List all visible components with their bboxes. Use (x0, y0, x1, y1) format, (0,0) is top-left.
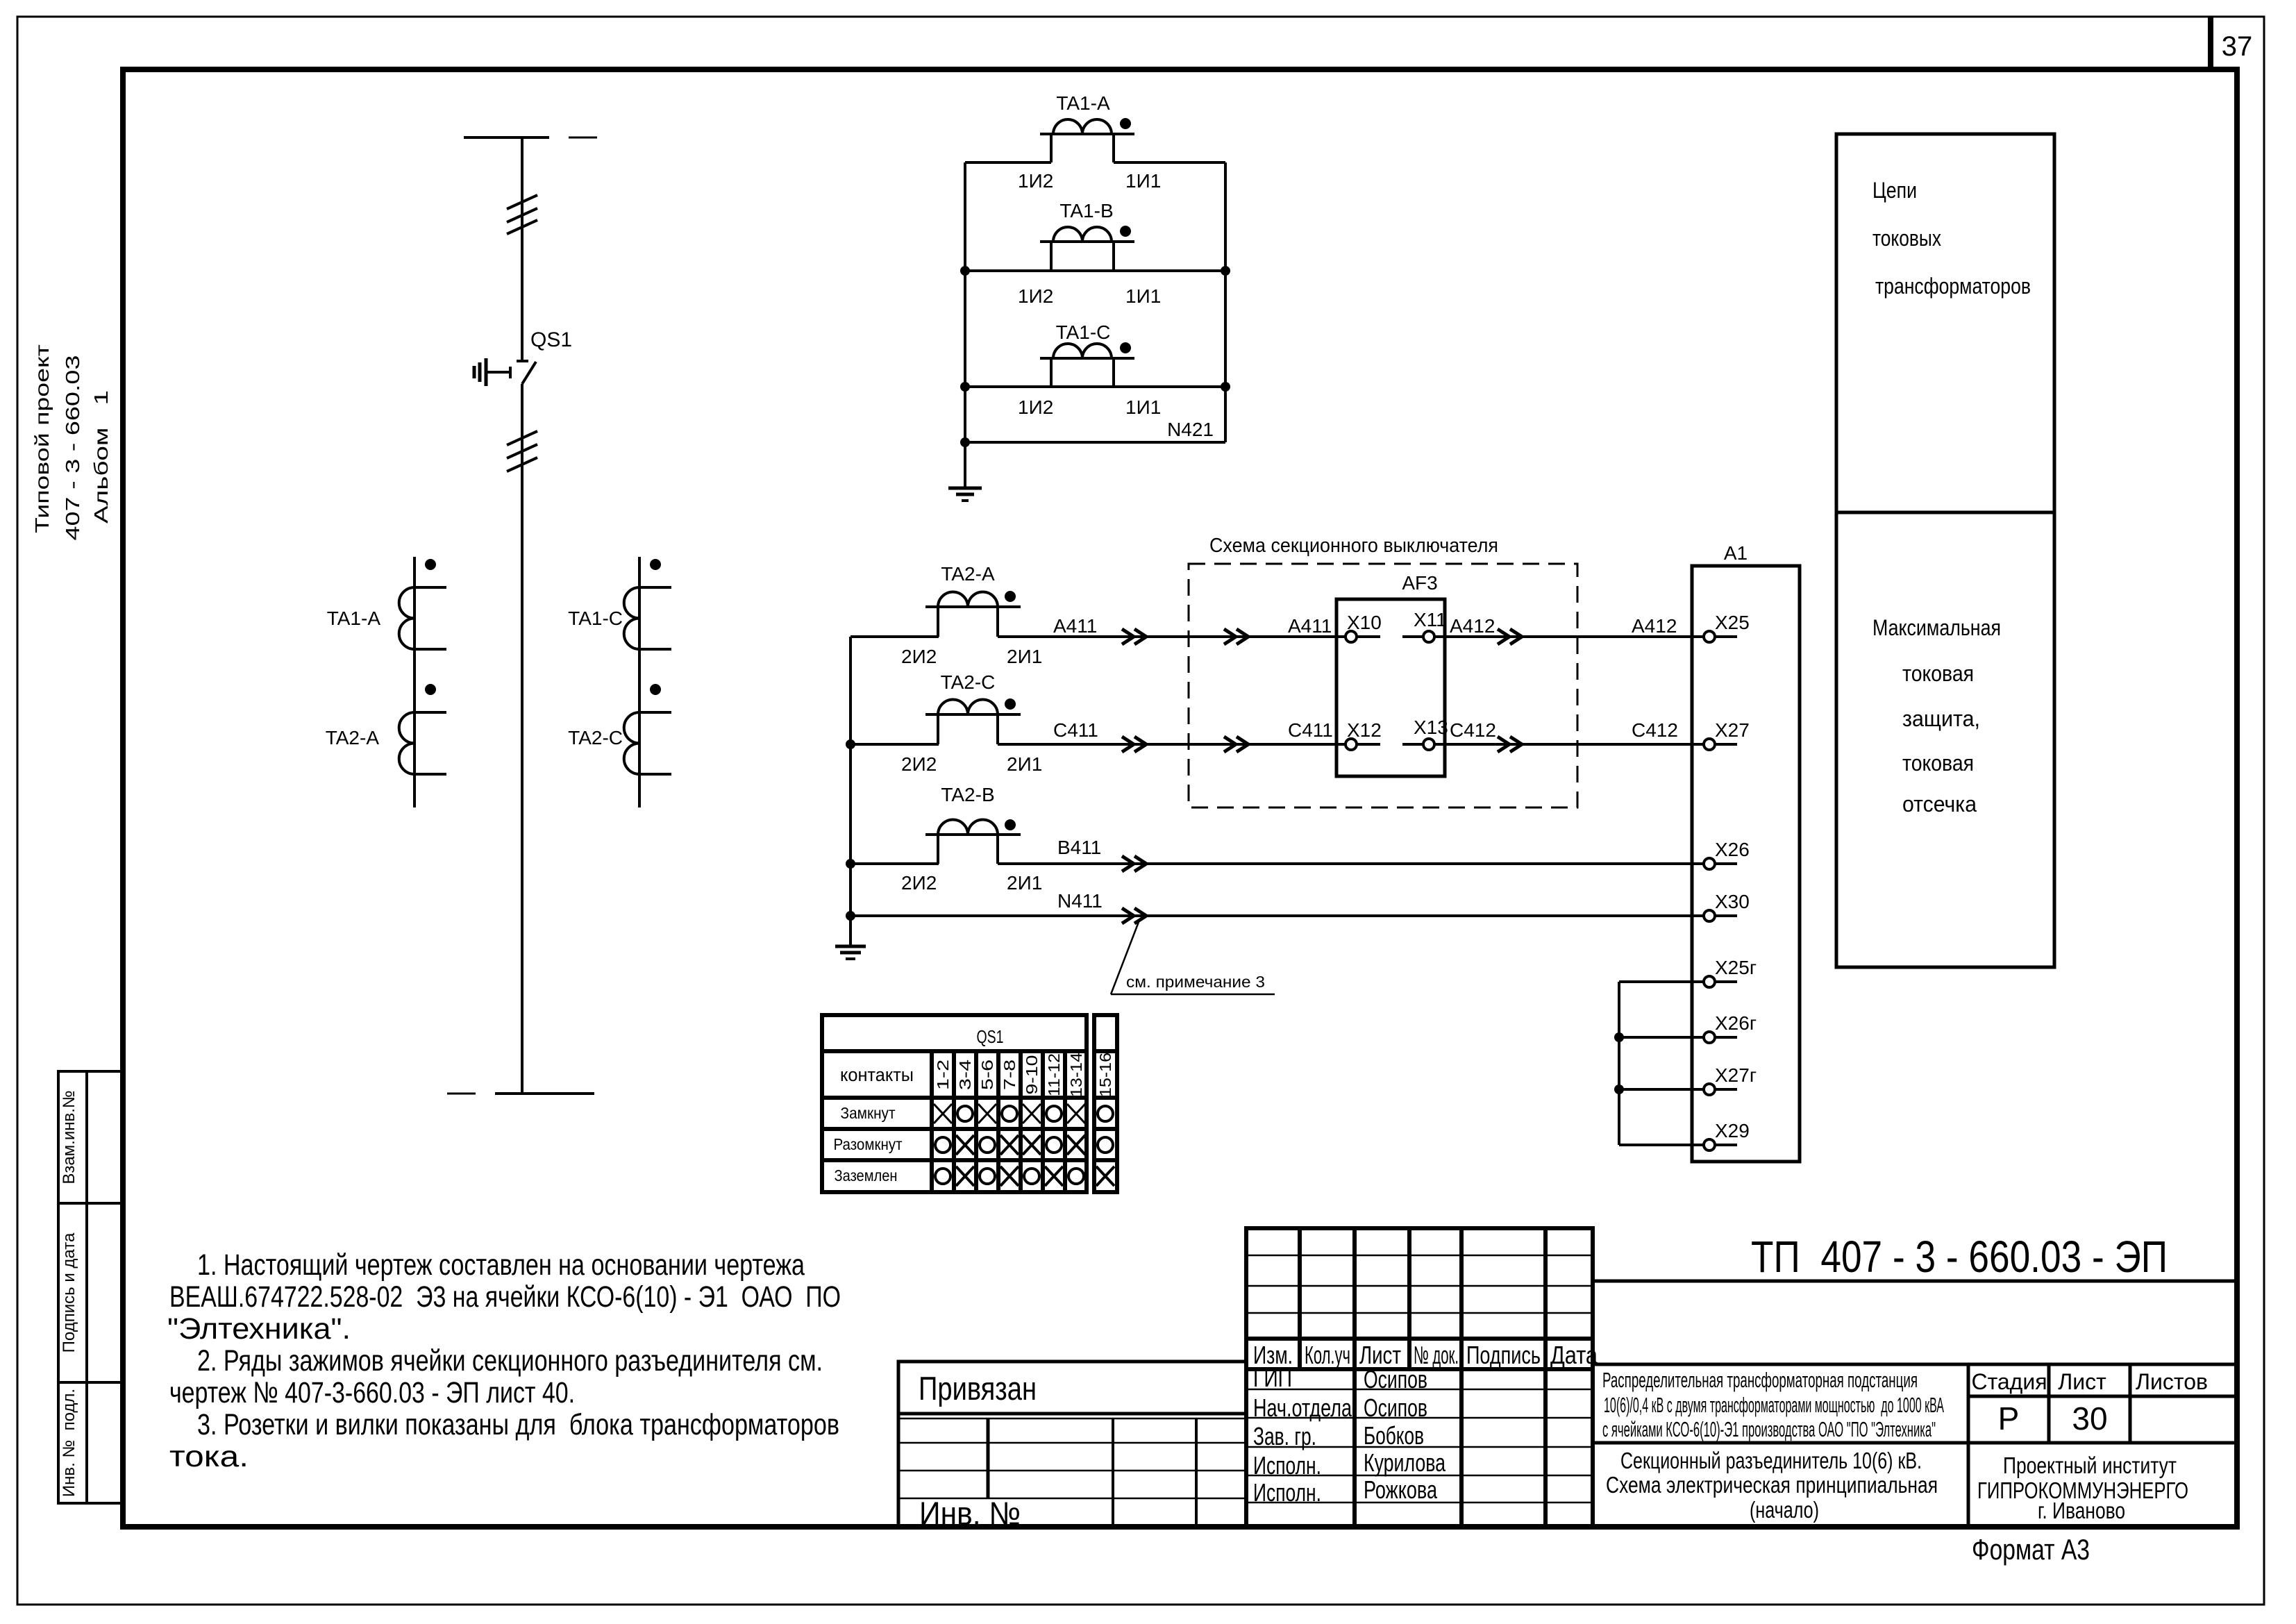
cable marks upper (507, 195, 537, 234)
svg-text:1И1: 1И1 (1125, 170, 1161, 192)
terminal X25 (1704, 612, 1750, 642)
rotated margin text Типовой проект (31, 344, 53, 533)
svg-text:Кол.уч: Кол.уч (1305, 1341, 1350, 1369)
svg-text:X26г: X26г (1715, 1012, 1757, 1034)
svg-text:см. примечание 3: см. примечание 3 (1126, 973, 1265, 991)
svg-text:Альбом 1: Альбом 1 (90, 390, 112, 524)
svg-text:Подпись: Подпись (1466, 1341, 1541, 1369)
rotated margin text 407-3-660.03 (62, 355, 83, 541)
sidebar cell Взам.инв.№ (58, 1071, 122, 1203)
terminal X29 (1704, 1120, 1750, 1150)
wire A412 (1434, 615, 1704, 644)
svg-text:токовая: токовая (1902, 751, 1974, 776)
svg-text:N411: N411 (1057, 890, 1103, 912)
svg-text:Инв. №: Инв. № (919, 1495, 1021, 1532)
svg-text:A411: A411 (1288, 615, 1332, 637)
current transformer TA1-B (top) (1040, 200, 1134, 271)
svg-text:Осипов: Осипов (1364, 1365, 1427, 1393)
svg-text:Листов: Листов (2136, 1369, 2208, 1394)
svg-text:токовых: токовых (1872, 226, 1941, 251)
svg-text:TA1-A: TA1-A (327, 608, 381, 629)
terminal X27г (1704, 1064, 1757, 1095)
wire C412 (1434, 719, 1704, 752)
svg-text:"Элтехника".: "Элтехника". (167, 1312, 351, 1346)
current transformer TA2-C (right column) (568, 684, 671, 774)
breaker block AF3 (1336, 572, 1445, 776)
svg-text:11-12: 11-12 (1045, 1053, 1063, 1096)
svg-text:5-6: 5-6 (978, 1060, 996, 1090)
svg-text:37: 37 (2222, 31, 2253, 62)
svg-text:9-10: 9-10 (1023, 1055, 1041, 1095)
QS1 table marks (934, 1104, 1114, 1186)
terminal X27 (1704, 719, 1750, 750)
wire row 4 (960, 437, 1225, 447)
svg-text:Схема электрическая принципиал: Схема электрическая принципиальная (1606, 1472, 1938, 1498)
svg-text:3. Розетки и вилки показаны дл: 3. Розетки и вилки показаны для блока тр… (197, 1408, 839, 1441)
current transformer TA1-A (left column) (327, 559, 446, 649)
ground TA2 bus (835, 946, 866, 959)
info box Максимальная токовая защита (1836, 512, 2054, 967)
svg-text:1. Настоящий чертеж составлен: 1. Настоящий чертеж составлен на основан… (197, 1248, 805, 1282)
svg-text:(начало): (начало) (1750, 1497, 1819, 1523)
svg-text:TA2-A: TA2-A (941, 563, 995, 585)
svg-text:Рожкова: Рожкова (1364, 1475, 1438, 1504)
svg-text:13-14: 13-14 (1067, 1053, 1085, 1097)
svg-text:TA2-C: TA2-C (568, 727, 623, 748)
svg-text:контакты: контакты (840, 1064, 914, 1085)
contact table QS1 (822, 1015, 1117, 1192)
wire N411 (846, 890, 1704, 923)
svg-text:TA2-B: TA2-B (941, 784, 994, 805)
current transformer TA1-C (right column) (568, 559, 671, 649)
svg-text:X26: X26 (1715, 839, 1750, 860)
svg-text:1И1: 1И1 (1125, 285, 1161, 307)
svg-text:ТП 407 - 3 - 660.03 - ЭП: ТП 407 - 3 - 660.03 - ЭП (1751, 1232, 2168, 1282)
svg-text:2И2: 2И2 (901, 872, 937, 894)
svg-text:Заземлен: Заземлен (835, 1166, 898, 1184)
svg-text:B411: B411 (1057, 837, 1101, 858)
svg-text:X25г: X25г (1715, 957, 1757, 978)
current transformer TA2-C (901, 671, 1042, 775)
svg-text:чертеж № 407-3-660.03 - ЭП лис: чертеж № 407-3-660.03 - ЭП лист 40. (169, 1376, 575, 1409)
svg-text:Исполн.: Исполн. (1253, 1478, 1321, 1507)
svg-text:TA1-C: TA1-C (568, 608, 623, 629)
terminal X26г (1704, 1012, 1757, 1043)
svg-text:Схема секционного выключателя: Схема секционного выключателя (1209, 535, 1498, 557)
svg-text:C412: C412 (1450, 719, 1496, 741)
svg-text:QS1: QS1 (977, 1026, 1004, 1047)
svg-text:2И1: 2И1 (1007, 646, 1042, 667)
svg-text:защита,: защита, (1902, 706, 1980, 731)
svg-text:TA1-A: TA1-A (1056, 92, 1110, 114)
terminal X11 (1402, 609, 1447, 642)
svg-text:TA2-C: TA2-C (941, 671, 996, 693)
svg-text:TA2-A: TA2-A (326, 727, 380, 748)
svg-text:Осипов: Осипов (1364, 1393, 1427, 1422)
wire right CT column (638, 557, 641, 807)
busbar bottom (447, 1092, 594, 1095)
svg-text:X29: X29 (1715, 1120, 1750, 1141)
svg-text:Курилова: Курилова (1364, 1448, 1446, 1477)
svg-text:QS1: QS1 (530, 328, 572, 351)
current transformer TA1-C (top) (1040, 321, 1134, 387)
svg-text:A1: A1 (1724, 542, 1748, 564)
sheet number box 37 (2211, 17, 2252, 69)
svg-text:Бобков: Бобков (1364, 1421, 1424, 1450)
wire row 1 (965, 162, 1225, 192)
wire A411 (850, 615, 1346, 644)
wire B411 (846, 837, 1704, 871)
svg-text:Инв. № подл.: Инв. № подл. (60, 1389, 78, 1497)
svg-text:A412: A412 (1450, 615, 1495, 637)
current transformer TA1-A (top) (1040, 92, 1134, 162)
svg-text:C411: C411 (1053, 719, 1098, 741)
wire row 2 (960, 266, 1230, 307)
svg-text:407 - 3 - 660.03: 407 - 3 - 660.03 (62, 355, 83, 541)
svg-text:Разомкнут: Разомкнут (834, 1135, 903, 1153)
wire TA1 loop left bus (964, 162, 966, 442)
svg-text:г. Иваново: г. Иваново (2038, 1498, 2125, 1523)
ground TA1 loop (948, 442, 982, 501)
svg-text:TA1-C: TA1-C (1056, 321, 1111, 343)
svg-text:C412: C412 (1632, 719, 1678, 741)
svg-text:C411: C411 (1288, 719, 1333, 741)
svg-text:15-16: 15-16 (1096, 1053, 1114, 1097)
terminal X25г (1704, 957, 1757, 987)
svg-text:Привязан: Привязан (919, 1370, 1037, 1407)
svg-text:Исполн.: Исполн. (1253, 1451, 1321, 1480)
svg-text:трансформаторов: трансформаторов (1875, 274, 2031, 299)
svg-text:1И2: 1И2 (1018, 396, 1053, 418)
svg-text:X11: X11 (1414, 609, 1447, 630)
title block left box Привязан (898, 1362, 1246, 1532)
title block change table (1246, 1228, 1598, 1527)
svg-text:2И1: 2И1 (1007, 753, 1042, 775)
cable marks lower (507, 431, 537, 471)
svg-text:X27г: X27г (1715, 1064, 1757, 1086)
wire lower bus section (521, 384, 523, 1094)
svg-text:Зав. гр.: Зав. гр. (1253, 1422, 1316, 1450)
info box Цепи токовых трансформаторов (1836, 134, 2054, 512)
svg-text:3-4: 3-4 (956, 1060, 974, 1090)
svg-text:отсечка: отсечка (1902, 792, 1977, 817)
disconnector QS1 (517, 328, 572, 384)
terminal X26 (1704, 839, 1750, 869)
wire TA2 left bus (849, 637, 852, 946)
terminal X30 (1704, 891, 1750, 921)
svg-text:2. Ряды зажимов ячейки секцион: 2. Ряды зажимов ячейки секционного разъе… (197, 1344, 823, 1378)
wire left CT column (413, 557, 416, 807)
svg-text:Нач.отдела: Нач.отдела (1253, 1393, 1352, 1422)
svg-text:Цепи: Цепи (1872, 178, 1917, 203)
svg-text:Типовой проект: Типовой проект (31, 344, 53, 533)
svg-text:A411: A411 (1053, 615, 1097, 637)
svg-text:1-2: 1-2 (934, 1060, 952, 1090)
earthing contact of QS1 (474, 358, 510, 386)
rotated margin text Альбом 1 (90, 390, 112, 524)
svg-text:2И2: 2И2 (901, 753, 937, 775)
svg-text:AF3: AF3 (1402, 572, 1437, 594)
svg-text:токовая: токовая (1902, 661, 1974, 686)
svg-text:Распределительная трансформато: Распределительная трансформаторная подст… (1602, 1368, 1918, 1392)
svg-text:X12: X12 (1347, 719, 1382, 741)
svg-text:Лист: Лист (2058, 1369, 2106, 1394)
wire TA1 loop right bus (1224, 162, 1227, 442)
svg-text:Стадия: Стадия (1971, 1369, 2047, 1394)
svg-text:1И1: 1И1 (1125, 396, 1161, 418)
svg-text:X27: X27 (1715, 719, 1750, 741)
svg-text:Р: Р (1998, 1400, 2020, 1437)
terminal X10 (1346, 612, 1382, 642)
current transformer TA2-A (901, 563, 1042, 667)
wire row 3 (960, 382, 1230, 418)
svg-text:TA1-B: TA1-B (1059, 200, 1113, 221)
svg-text:Формат А3: Формат А3 (1972, 1533, 2090, 1566)
svg-text:Секционный разъединитель 10(6): Секционный разъединитель 10(6) кВ. (1620, 1448, 1922, 1473)
svg-text:30: 30 (2072, 1400, 2107, 1437)
svg-text:Проектный институт: Проектный институт (2003, 1453, 2177, 1478)
svg-text:ГИП: ГИП (1253, 1364, 1292, 1392)
wire jumper loop X25г-X26г-X27г-X29 (1614, 982, 1704, 1145)
svg-text:с ячейками КСО-6(10)-Э1 произв: с ячейками КСО-6(10)-Э1 производства ОАО… (1602, 1417, 1936, 1441)
svg-text:X10: X10 (1347, 612, 1382, 633)
note callout см. примечание 3 (1111, 922, 1275, 994)
svg-text:Замкнут: Замкнут (841, 1104, 896, 1122)
sidebar cell Подпись и дата (58, 1203, 122, 1382)
current transformer TA2-B (901, 784, 1042, 894)
svg-text:1И2: 1И2 (1018, 170, 1053, 192)
svg-text:X13: X13 (1414, 717, 1448, 738)
svg-text:7-8: 7-8 (1000, 1060, 1019, 1090)
wire C411 (846, 719, 1346, 752)
current transformer TA2-A (left column) (326, 684, 446, 774)
dashed box Схема секционного выключателя (1189, 535, 1577, 807)
svg-text:Взам.инв.№: Взам.инв.№ (60, 1090, 78, 1184)
svg-text:X25: X25 (1715, 612, 1750, 633)
wire upper bus section (521, 137, 523, 361)
sidebar cell Инв. № подл. (58, 1382, 122, 1503)
terminal X12 (1346, 719, 1382, 750)
terminal block A1 (1692, 542, 1800, 1162)
svg-text:N421: N421 (1167, 419, 1214, 440)
svg-text:2И1: 2И1 (1007, 872, 1042, 894)
svg-text:ВЕАШ.674722.528-02 Э3 на ячей: ВЕАШ.674722.528-02 Э3 на ячейки КСО-6(10… (169, 1280, 841, 1314)
svg-text:A412: A412 (1632, 615, 1677, 637)
title block main stamp (1593, 1228, 2237, 1527)
svg-text:тока.: тока. (169, 1440, 249, 1473)
terminal X13 (1402, 717, 1448, 750)
label Формат А3 (1972, 1533, 2090, 1566)
svg-text:2И2: 2И2 (901, 646, 937, 667)
notes text (167, 1248, 841, 1473)
svg-text:1И2: 1И2 (1018, 285, 1053, 307)
node N421 (1167, 419, 1214, 440)
svg-text:Максимальная: Максимальная (1872, 615, 2001, 640)
svg-text:10(6)/0,4 кВ с двумя трансформ: 10(6)/0,4 кВ с двумя трансформаторами мо… (1604, 1393, 1944, 1417)
busbar top (464, 136, 597, 139)
svg-text:Подпись и дата: Подпись и дата (60, 1232, 78, 1353)
svg-text:X30: X30 (1715, 891, 1750, 912)
